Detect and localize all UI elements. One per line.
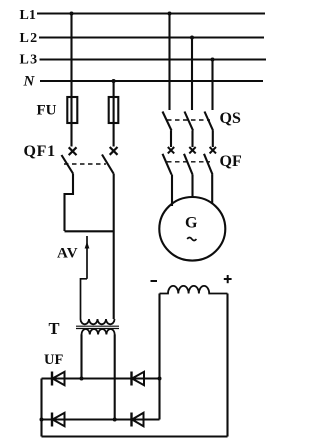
node junction L1/QS1	[168, 12, 172, 16]
wire rectifier top row	[42, 377, 160, 379]
switch QS blade pole2	[185, 112, 194, 131]
bus L1	[37, 12, 265, 14]
field winding of G	[160, 286, 228, 294]
svg-text:QF1: QF1	[24, 143, 56, 160]
svg-text:L3: L3	[20, 52, 39, 67]
node junction left vertical/bottom row	[40, 418, 44, 422]
breaker QF1 contact mark pole2	[110, 147, 118, 155]
wire rectifier bottom row	[42, 418, 160, 420]
wire N drop to fuse FU2	[113, 81, 115, 147]
wire rectifier left vertical	[40, 379, 42, 437]
wire L1 drop to fuse FU1	[70, 14, 72, 147]
breaker QF contact mark pole3	[210, 147, 216, 153]
label plus	[224, 275, 232, 283]
bus L3	[40, 58, 267, 60]
svg-text:AV: AV	[57, 245, 78, 261]
fuse FU2	[109, 97, 119, 123]
bus L2	[39, 36, 264, 38]
svg-text:QS: QS	[220, 110, 241, 127]
transformer T primary winding	[81, 319, 115, 324]
transformer T core	[76, 325, 119, 327]
wire QF pole3 to generator	[211, 175, 213, 205]
node junction L1/FU1	[70, 12, 74, 16]
svg-text:UF: UF	[44, 352, 63, 368]
breaker QF blade pole1	[163, 154, 172, 175]
diode UF2	[130, 372, 132, 386]
label minus	[151, 280, 158, 282]
wire QF1 bottom	[65, 230, 115, 232]
wire QF1 pole2 lower to transformer primary	[113, 174, 115, 320]
generator G circle	[159, 197, 225, 261]
wire L1 drop to QS pole1	[168, 14, 170, 111]
node junction top row/field minus	[158, 377, 162, 381]
wire QF pole2 to generator	[191, 175, 193, 199]
node junction secondary/top row	[80, 377, 84, 381]
node junction L3/QS3	[211, 58, 215, 62]
svg-text:L2: L2	[20, 31, 39, 46]
node junction N/FU2	[112, 79, 116, 83]
AV sense arrow	[86, 236, 88, 279]
breaker QF contact mark pole1	[168, 147, 174, 153]
wire bottom return	[42, 435, 228, 437]
wire secondary right lead	[114, 335, 116, 420]
wire QS pole1 to QF pole1	[170, 131, 172, 148]
fuse FU1	[67, 97, 77, 123]
wire QS pole3 to QF pole3	[212, 131, 214, 148]
wire QS pole2 to QF pole2	[191, 131, 193, 148]
diode UF4	[130, 413, 132, 427]
svg-text:QF: QF	[220, 153, 242, 170]
transformer T secondary winding	[82, 329, 115, 335]
svg-text:L1: L1	[20, 8, 36, 23]
svg-text:T: T	[49, 319, 60, 338]
breaker QF1 dashed link	[64, 163, 106, 165]
wire L3 drop to QS pole3	[211, 60, 213, 111]
wire QF pole1 to generator	[171, 175, 173, 207]
diode UF1	[51, 372, 53, 386]
wire QF1 pole1 lower	[65, 174, 74, 232]
switch QS blade pole3	[205, 112, 214, 131]
wire secondary left lead	[80, 335, 82, 379]
diode UF3	[51, 413, 53, 427]
svg-text:FU: FU	[37, 103, 57, 119]
wire field minus drop	[158, 294, 160, 420]
node junction L2/QS2	[190, 36, 194, 40]
breaker QF blade pole3	[204, 154, 213, 175]
breaker QF1 blade pole1	[62, 155, 74, 174]
breaker QF blade pole2	[184, 154, 193, 175]
svg-text:G: G	[185, 214, 198, 231]
switch QS blade pole1	[163, 112, 172, 131]
wire AV to transformer primary left	[81, 279, 88, 319]
bus N	[40, 80, 263, 82]
breaker QF contact mark pole2	[189, 147, 195, 153]
breaker QF1 blade pole2	[102, 155, 114, 174]
wire L2 drop to QS pole2	[191, 38, 193, 111]
node junction secondary right/bottom row	[113, 418, 117, 422]
wire right riser to field plus	[226, 294, 228, 437]
breaker QF1 contact mark pole1	[69, 147, 77, 155]
svg-text:N: N	[23, 73, 36, 89]
label ~	[187, 238, 196, 241]
switch QS dashed link	[167, 119, 210, 121]
breaker QF dashed link	[167, 161, 210, 163]
